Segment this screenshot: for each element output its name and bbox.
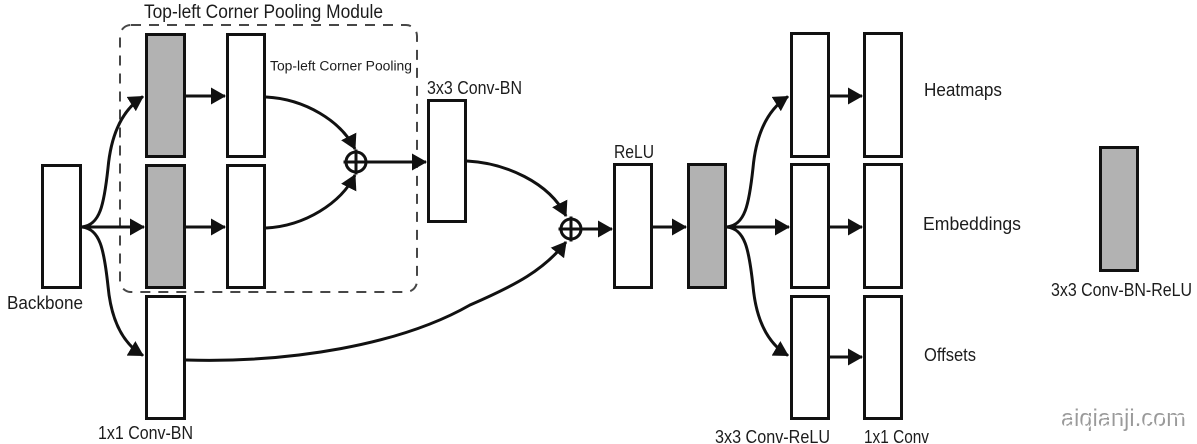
block: gray 3x3 Conv-BN-ReLU (center) — [689, 165, 726, 288]
svg-text:3x3 Conv-ReLU: 3x3 Conv-ReLU — [715, 427, 830, 444]
block: ReLU — [615, 165, 652, 288]
wire: center gray conv to offset branch (curved) — [727, 227, 788, 356]
svg-text:3x3 Conv-BN-ReLU: 3x3 Conv-BN-ReLU — [1051, 280, 1192, 300]
block: gray conv (module bottom branch) — [147, 166, 185, 288]
dashed module boundary box — [120, 25, 417, 292]
block: heatmap 1x1 Conv — [865, 34, 902, 157]
wire: top pooling to add node 1 (curved) — [266, 97, 355, 149]
wire: backbone to bottom gray conv (straight arrow) — [82, 226, 144, 229]
block: gray legend 3x3 Conv-BN-ReLU — [1101, 148, 1138, 271]
wire: backbone to 1x1 Conv-BN (curved) — [82, 227, 143, 356]
svg-text:Top-left Corner Pooling: Top-left Corner Pooling — [270, 59, 412, 74]
block: Backbone — [43, 166, 81, 288]
block: heatmap 3x3 Conv-ReLU — [792, 34, 829, 157]
wire: bottom pooling to add node 1 (curved) — [266, 175, 355, 228]
svg-text:ReLU: ReLU — [614, 142, 654, 162]
watermark: aiqianji.com — [1061, 405, 1188, 434]
svg-text:Embeddings: Embeddings — [923, 214, 1021, 234]
wire: heatmap conv to 1x1 — [830, 95, 862, 98]
block: embedding 3x3 Conv-ReLU — [792, 165, 829, 288]
wire: 3x3 Conv-BN to add node 2 (curved) — [467, 161, 566, 216]
block: white pooling (module bottom branch) — [228, 166, 265, 288]
svg-text:Offsets: Offsets — [924, 345, 976, 365]
block: gray conv (module top branch) — [147, 35, 185, 157]
svg-text:aiqianji.com: aiqianji.com — [1063, 407, 1188, 434]
block: embedding 1x1 Conv — [865, 165, 902, 288]
block: offset 1x1 Conv — [865, 297, 902, 419]
wire: embedding conv to 1x1 — [830, 226, 862, 229]
wire: ReLU to center gray conv — [653, 226, 686, 229]
svg-text:Backbone: Backbone — [7, 293, 83, 313]
wire: add node 2 to ReLU — [581, 228, 612, 231]
block: offset 3x3 Conv-ReLU — [792, 297, 829, 419]
wire: top gray conv to top pooling — [186, 95, 225, 98]
block: 3x3 Conv-BN — [429, 101, 466, 222]
svg-text:1x1 Conv: 1x1 Conv — [864, 427, 929, 444]
block: white pooling (module top branch) — [228, 35, 265, 157]
wire: center gray conv to embedding branch (straight) — [727, 226, 789, 229]
svg-text:Heatmaps: Heatmaps — [924, 80, 1002, 100]
wire: offset conv to 1x1 — [830, 356, 862, 359]
wire: add node 1 to 3x3 Conv-BN — [366, 161, 426, 164]
wire: 1x1 Conv-BN to add node 2 (long curve) — [186, 242, 566, 360]
wire: bottom gray conv to bottom pooling — [186, 226, 225, 229]
wire: center gray conv to heatmap branch (curved) — [727, 97, 788, 228]
add node 1 (circled plus) — [344, 150, 369, 175]
svg-text:3x3 Conv-BN: 3x3 Conv-BN — [427, 78, 522, 98]
svg-text:Top-left Corner Pooling Module: Top-left Corner Pooling Module — [144, 2, 383, 23]
wire: backbone to top gray conv (curved) — [82, 97, 143, 228]
block: 1x1 Conv-BN — [147, 297, 185, 419]
svg-text:1x1 Conv-BN: 1x1 Conv-BN — [98, 423, 193, 443]
add node 2 (circled plus) — [559, 217, 584, 242]
